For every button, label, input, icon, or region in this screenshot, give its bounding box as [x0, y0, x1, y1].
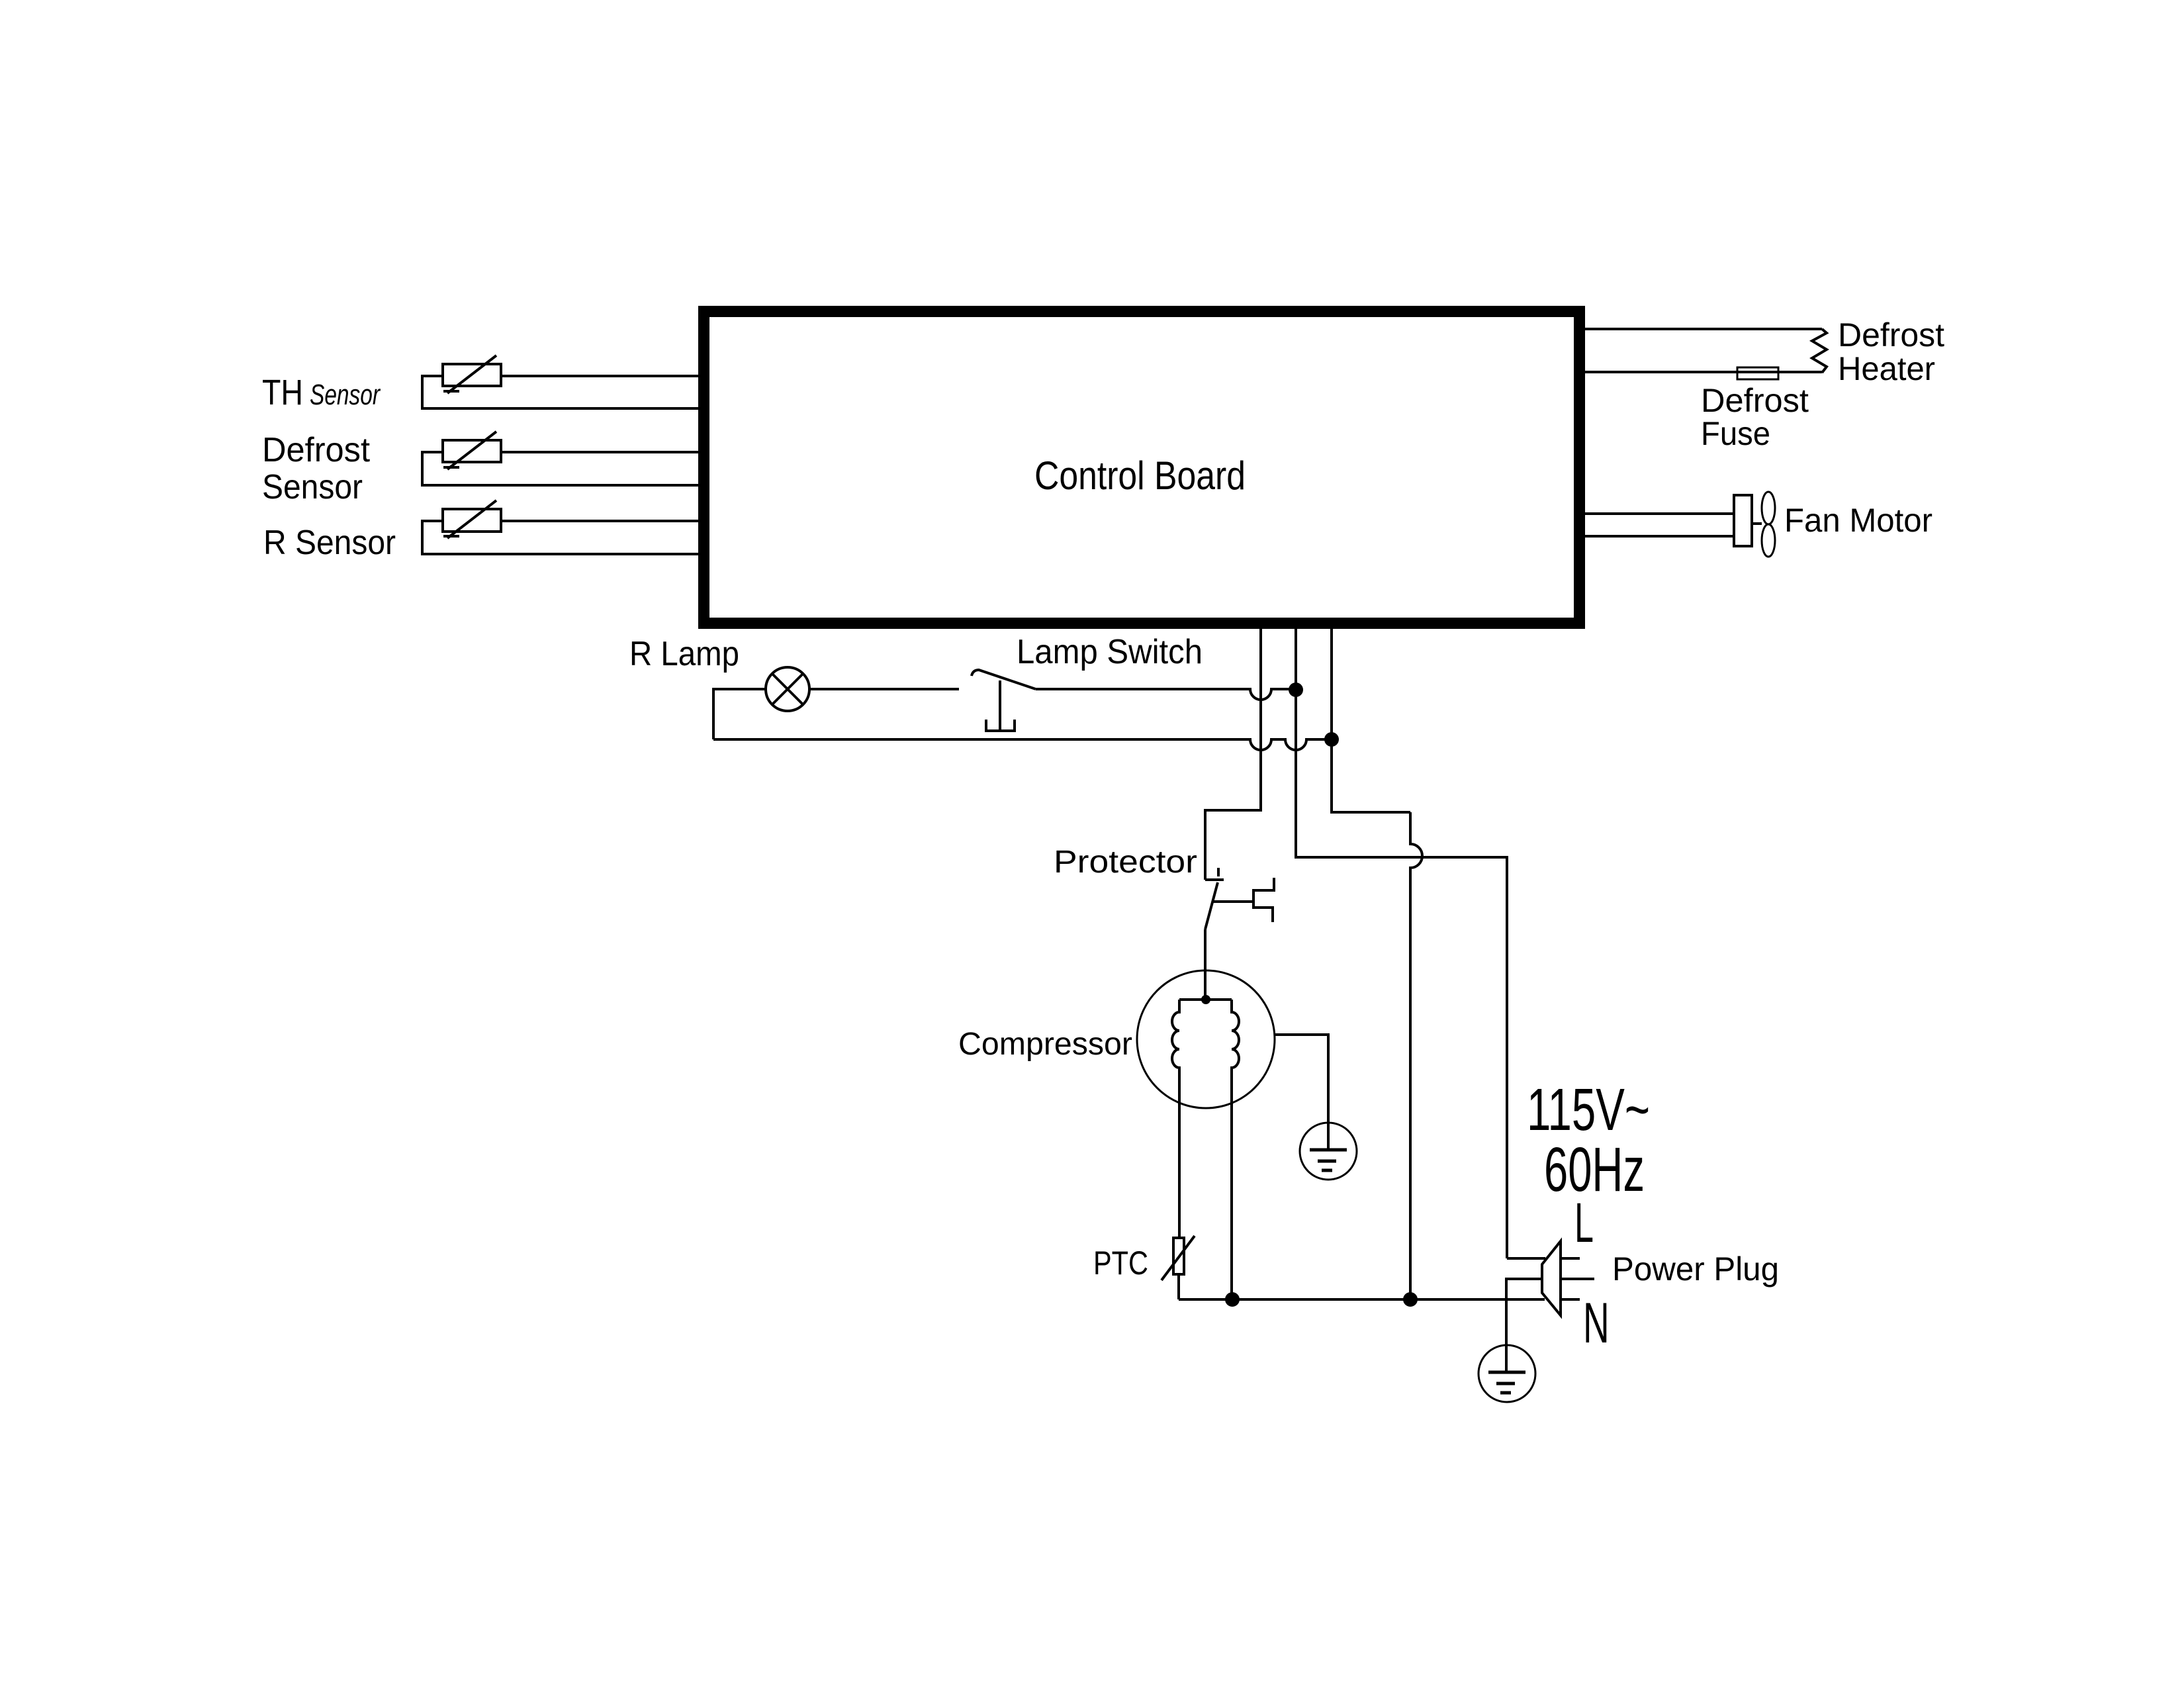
- ground plug earth: [1479, 1345, 1535, 1402]
- wire pin3 down from board: [1332, 629, 1410, 812]
- junction compressor top: [1201, 995, 1210, 1004]
- plug prong N: [1561, 1298, 1580, 1301]
- control board U1: [704, 312, 1580, 624]
- wire fan motor bottom: [1583, 535, 1734, 538]
- wire switch to board with hop: [1036, 689, 1296, 700]
- svg-text:115V~: 115V~: [1527, 1077, 1650, 1143]
- svg-text:Fan Motor: Fan Motor: [1784, 502, 1933, 539]
- thermistor R sensor: [422, 500, 700, 554]
- wire lamp bottom return with hops: [713, 739, 1332, 750]
- wire defrost heater top: [1583, 328, 1822, 330]
- protector blade: [1205, 882, 1218, 929]
- compressor winding: [1179, 998, 1232, 1001]
- svg-text:N: N: [1583, 1292, 1610, 1355]
- svg-text:Defrost: Defrost: [1838, 316, 1944, 353]
- svg-text:PTC: PTC: [1093, 1244, 1148, 1282]
- wire lamp left loop: [713, 689, 766, 739]
- svg-text:Defrost: Defrost: [1701, 382, 1809, 419]
- protector heater bracket: [1253, 878, 1274, 922]
- wire lamp to switch: [809, 688, 959, 690]
- svg-text:R Sensor: R Sensor: [263, 524, 396, 562]
- wire L to plug: [1507, 1257, 1545, 1260]
- svg-text:Control Board: Control Board: [1034, 453, 1246, 498]
- power plug body: [1542, 1241, 1561, 1315]
- junction dot compressor run: [1225, 1292, 1240, 1307]
- protector contact: [1205, 878, 1224, 881]
- svg-text:Power Plug: Power Plug: [1612, 1250, 1779, 1288]
- svg-text:60Hz: 60Hz: [1544, 1135, 1645, 1205]
- wire PTC to bottom rail: [1177, 1274, 1180, 1299]
- wire fan motor top: [1583, 512, 1734, 515]
- svg-text:Lamp Switch: Lamp Switch: [1017, 633, 1203, 671]
- svg-text:TH: TH: [262, 373, 303, 412]
- junction dot lamp return net: [1324, 732, 1339, 747]
- switch lamp switch blade: [972, 670, 1036, 689]
- wire plug earth down: [1506, 1279, 1542, 1372]
- junction dot lamp switch net: [1289, 682, 1303, 697]
- PTC thermistor: [1173, 1238, 1184, 1274]
- fan motor body: [1734, 495, 1752, 546]
- plug prong L: [1561, 1257, 1580, 1260]
- svg-text:R Lamp: R Lamp: [629, 635, 739, 673]
- junction dot N rail: [1403, 1292, 1418, 1307]
- switch plunger: [999, 680, 1001, 729]
- wire bottom rail: [1179, 1298, 1545, 1301]
- svg-text:Sensor: Sensor: [262, 468, 363, 506]
- wire pin2 down from board: [1296, 629, 1507, 1258]
- svg-text:Defrost: Defrost: [262, 431, 371, 469]
- wire defrost fuse bottom: [1583, 371, 1822, 373]
- svg-text:Heater: Heater: [1838, 350, 1935, 387]
- fan motor shaft: [1752, 522, 1762, 525]
- wire vertical with hop over L wire: [1410, 812, 1422, 1299]
- plug prong earth: [1561, 1278, 1594, 1280]
- protector link: [1212, 900, 1253, 903]
- wire protector to compressor: [1204, 929, 1206, 1000]
- ground compressor earth: [1300, 1123, 1357, 1180]
- thermistor Defrost sensor: [422, 432, 700, 485]
- fan motor blade top: [1762, 492, 1775, 524]
- fan motor blade bottom: [1762, 524, 1775, 557]
- svg-text:Protector: Protector: [1054, 845, 1197, 880]
- wire compressor case to ground: [1275, 1035, 1328, 1150]
- compressor shell: [1137, 970, 1275, 1108]
- svg-text:Compressor: Compressor: [958, 1027, 1132, 1062]
- svg-text:Fuse: Fuse: [1701, 415, 1770, 452]
- lamp R lamp: [766, 667, 809, 711]
- fuse defrost fuse: [1737, 367, 1778, 379]
- svg-text:Sensor: Sensor: [310, 379, 381, 411]
- resistor defrost heater zigzag: [1812, 329, 1827, 373]
- svg-text:L: L: [1574, 1192, 1594, 1254]
- switch bracket: [986, 720, 1015, 731]
- wire pin1 down from board: [1205, 629, 1261, 880]
- thermistor TH sensor: [422, 355, 700, 408]
